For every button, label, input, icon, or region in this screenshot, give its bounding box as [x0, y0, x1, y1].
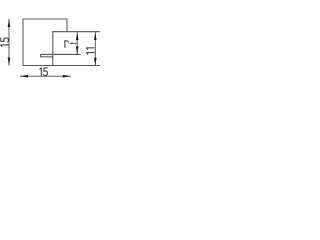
background [0, 0, 100, 100]
11 dim arrow down [94, 58, 97, 66]
7 dim arrow down [76, 46, 79, 54]
11 dim arrow up [94, 32, 97, 40]
right inner dimension line (7) [76, 32, 78, 54]
profile slot top / seat line + extension (y=54) [41, 53, 81, 55]
leader line for 7 text [72, 42, 77, 44]
bottom dim arrow right [63, 75, 71, 78]
profile step line + extension line (y=31.5) [52, 31, 100, 33]
left dimension line (15) [8, 19, 10, 66]
profile middle vertical edge [52, 32, 54, 66]
profile outline: top edge [23, 18, 67, 20]
dim text 15 (bottom) [40, 68, 48, 76]
profile slot left edge [40, 54, 42, 56]
left dim arrow up [8, 19, 11, 27]
dim text 7 (leader text, rotated style) [64, 41, 66, 48]
bottom dim arrow left [20, 75, 28, 78]
7 leader arrowhead [69, 43, 73, 45]
7 dim arrow up [76, 32, 79, 40]
left dim arrow down [8, 58, 11, 66]
profile outline: right upper edge [66, 19, 68, 32]
profile slot bottom edge [41, 56, 53, 58]
profile bottom edge + extension (y=65.5) [23, 65, 101, 67]
dim text 11 (right, rotated) [86, 48, 94, 54]
dim text 15 (left, rotated) [1, 38, 9, 46]
profile outline: left edge [22, 19, 24, 66]
right outer dimension line (11) [94, 32, 96, 65]
bottom dimension line (15) [20, 75, 71, 77]
